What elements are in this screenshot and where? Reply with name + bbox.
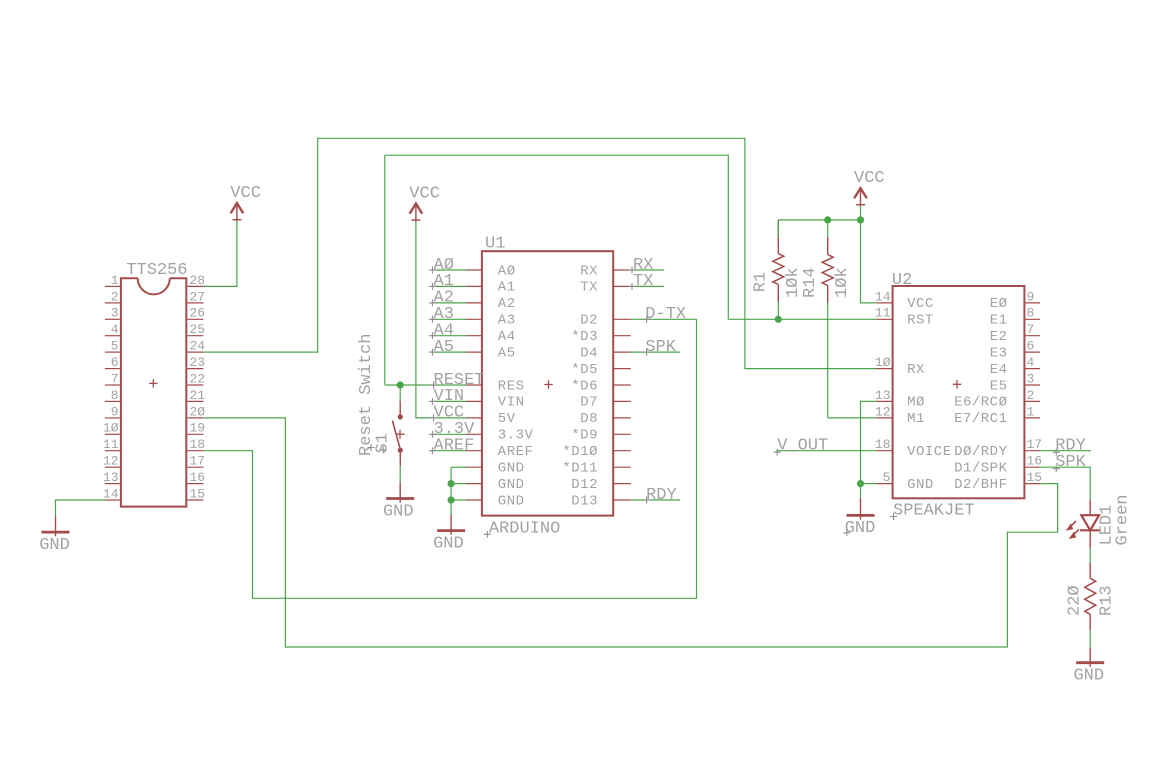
SPEAKJET pin 14 VCC (left) — [876, 302, 892, 304]
TTS256 pin 19 (right) — [187, 433, 203, 435]
svg-text:26: 26 — [190, 306, 206, 321]
svg-text:*D9: *D9 — [571, 428, 598, 444]
svg-text:*D3: *D3 — [571, 329, 598, 345]
resistor R14 — [827, 220, 829, 238]
svg-text:7: 7 — [111, 371, 119, 386]
switch S1 — [399, 385, 401, 401]
svg-text:D12: D12 — [571, 477, 598, 493]
svg-text:GND: GND — [39, 536, 70, 555]
svg-text:2: 2 — [1027, 388, 1035, 403]
svg-text:11: 11 — [103, 437, 119, 452]
net label 3.3V wire — [432, 433, 466, 435]
svg-text:2: 2 — [111, 289, 119, 304]
svg-text:D-TX: D-TX — [645, 305, 686, 324]
net label A1 wire — [432, 285, 466, 287]
svg-text:RX: RX — [580, 263, 598, 279]
TTS256 pin 12 (left) — [105, 466, 120, 468]
wire TTS pin18 to Arduino D2 (D-TX net) — [203, 319, 696, 598]
svg-text:6: 6 — [1027, 339, 1035, 354]
ARDUINO pin VIN (left, row 8) — [466, 400, 482, 402]
resistor R13 — [1089, 563, 1091, 578]
TTS256 pin 26 (right) — [187, 318, 203, 320]
svg-text:R13: R13 — [1098, 585, 1117, 616]
svg-text:1Ø: 1Ø — [103, 421, 119, 436]
SPEAKJET pin 12 M1 (left) — [876, 417, 892, 419]
SPEAKJET pin 8 E1 (right) — [1024, 318, 1040, 320]
svg-text:8: 8 — [111, 388, 119, 403]
svg-text:*D11: *D11 — [562, 461, 598, 477]
svg-text:7: 7 — [1027, 322, 1035, 337]
svg-text:23: 23 — [190, 355, 206, 370]
ARDUINO pin D4 (right, row 5) — [613, 351, 631, 353]
svg-text:AREF: AREF — [434, 437, 475, 456]
svg-text:TTS256: TTS256 — [126, 261, 187, 280]
ARDUINO pin D7 (right, row 8) — [613, 400, 631, 402]
net SPK wire (speakjet 16) to LED — [1040, 467, 1090, 499]
net TX wire — [631, 285, 664, 287]
ARDUINO pin RX (right, row 0) — [613, 269, 631, 271]
svg-text:1Øk: 1Øk — [833, 267, 852, 298]
SPEAKJET pin 18 VOICE (left) — [876, 450, 892, 452]
ARDUINO pin GND (left, row 12) — [466, 466, 482, 468]
TTS256 pin 21 (right) — [187, 400, 203, 402]
svg-text:TX: TX — [580, 280, 598, 296]
wire R13 to GND — [1089, 630, 1091, 647]
svg-text:3.3V: 3.3V — [498, 428, 534, 444]
ground symbol (R13) — [1073, 648, 1104, 686]
TTS256 pin 28 (right) — [187, 285, 203, 287]
TTS256 pin 24 (right) — [187, 351, 203, 353]
svg-text:M1: M1 — [907, 411, 925, 427]
svg-text:19: 19 — [190, 421, 206, 436]
svg-text:GND: GND — [498, 493, 525, 509]
net label A3 wire — [432, 318, 466, 320]
SPEAKJET pin 10 RX (left) — [876, 368, 892, 370]
svg-text:GND: GND — [498, 477, 525, 493]
VCC symbol (right) — [854, 169, 885, 207]
net RX wire — [631, 269, 664, 271]
svg-text:RESET: RESET — [434, 371, 485, 390]
SPEAKJET pin 13 M0 (left) — [876, 400, 892, 402]
SPEAKJET pin 16 D1/SPK (right) — [1024, 466, 1040, 468]
svg-text:VOICE: VOICE — [907, 444, 952, 460]
svg-text:VCC: VCC — [907, 296, 934, 312]
ground symbol (TTS256 pin14) — [39, 516, 70, 555]
svg-text:R14: R14 — [801, 267, 820, 298]
SPEAKJET pin 7 E2 (right) — [1024, 335, 1040, 337]
SPEAKJET pin 3 E5 (right) — [1024, 384, 1040, 386]
ARDUINO pin GND (left, row 13) — [466, 483, 482, 485]
ARDUINO pin GND (left, row 14) — [466, 499, 482, 501]
wire speakjet GND pin — [861, 483, 877, 485]
svg-text:GND: GND — [498, 461, 525, 477]
svg-text:D8: D8 — [580, 411, 598, 427]
ARDUINO pin *D3 (right, row 4) — [613, 335, 631, 337]
SPEAKJET pin 4 E4 (right) — [1024, 368, 1040, 370]
junction R14 top — [824, 216, 831, 223]
svg-text:13: 13 — [103, 470, 119, 485]
svg-text:RX: RX — [907, 362, 925, 378]
svg-text:RST: RST — [907, 313, 934, 329]
ARDUINO pin A0 (left, row 0) — [466, 269, 482, 271]
svg-text:GND: GND — [907, 477, 934, 493]
svg-text:U2: U2 — [892, 271, 912, 290]
svg-text:4: 4 — [111, 322, 119, 337]
junction VCC/pin14 — [857, 216, 864, 223]
svg-text:22: 22 — [190, 371, 206, 386]
IC U3 TTS256 body — [121, 278, 186, 506]
svg-text:GND: GND — [433, 534, 464, 553]
svg-text:14: 14 — [875, 289, 891, 304]
svg-text:E7/RC1: E7/RC1 — [954, 411, 1007, 427]
wire VCC to 5V pin — [416, 221, 466, 418]
svg-text:E1: E1 — [990, 313, 1008, 329]
IC U2 origin cross — [953, 380, 961, 388]
svg-text:GND: GND — [845, 519, 876, 538]
junction RESET/switch — [397, 381, 404, 388]
svg-text:3: 3 — [111, 306, 119, 321]
ARDUINO pin *D9 (right, row 10) — [613, 433, 631, 435]
svg-text:12: 12 — [875, 404, 891, 419]
ARDUINO pin 5V (left, row 9) — [466, 417, 482, 419]
wire RST row — [728, 318, 876, 320]
ARDUINO pin *D10 (right, row 11) — [613, 450, 631, 452]
ground symbol (arduino) — [433, 515, 465, 554]
svg-text:A3: A3 — [498, 313, 516, 329]
svg-text:A4: A4 — [498, 329, 516, 345]
svg-text:SPK: SPK — [1055, 453, 1086, 472]
TTS256 pin 9 (left) — [105, 417, 120, 419]
svg-text:SPK: SPK — [645, 338, 676, 357]
wire M1 row — [828, 417, 877, 419]
svg-text:5: 5 — [111, 339, 119, 354]
net D-TX wire (D2) — [631, 318, 697, 320]
svg-text:18: 18 — [875, 437, 891, 452]
TTS256 pin 23 (right) — [187, 368, 203, 370]
ground symbol (speakjet) — [845, 498, 876, 538]
svg-text:21: 21 — [190, 388, 206, 403]
net label VIN wire — [432, 400, 466, 402]
svg-text:1Ø: 1Ø — [875, 355, 891, 370]
svg-text:24: 24 — [190, 339, 206, 354]
junction R1/RST — [775, 316, 782, 323]
svg-text:E2: E2 — [990, 329, 1008, 345]
wire switch to GND — [399, 466, 401, 483]
TTS256 pin 2 (left) — [105, 302, 120, 304]
svg-text:D2/BHF: D2/BHF — [954, 477, 1007, 493]
svg-text:D4: D4 — [580, 345, 598, 361]
svg-text:D13: D13 — [571, 493, 598, 509]
net label V_OUT wire — [776, 450, 876, 452]
net SPK wire (D4) — [631, 351, 680, 353]
svg-text:RDY: RDY — [646, 486, 677, 505]
svg-text:16: 16 — [1027, 454, 1043, 469]
svg-text:U1: U1 — [485, 235, 505, 254]
svg-text:AREF: AREF — [498, 444, 534, 460]
TTS256 pin 14 (left) — [105, 499, 120, 501]
IC U1 origin cross — [544, 380, 552, 388]
svg-text:D2: D2 — [580, 313, 598, 329]
svg-text:Green: Green — [1114, 494, 1133, 545]
svg-text:RES: RES — [498, 378, 525, 394]
TTS256 pin 27 (right) — [187, 302, 203, 304]
ARDUINO pin A1 (left, row 1) — [466, 285, 482, 287]
SPEAKJET pin 5 GND (left) — [876, 483, 892, 485]
svg-text:DØ/RDY: DØ/RDY — [954, 444, 1008, 460]
IC U1 ARDUINO body — [482, 251, 613, 515]
ARDUINO pin TX (right, row 1) — [613, 285, 631, 287]
junction speakjet GND — [857, 480, 864, 487]
ARDUINO pin RES (left, row 7) — [466, 384, 482, 386]
junction GND3 — [448, 496, 455, 503]
svg-text:13: 13 — [875, 388, 891, 403]
wire TTS pin24 to SpeakJet RX (net) — [203, 138, 876, 368]
svg-text:V_OUT: V_OUT — [777, 437, 828, 456]
TTS256 pin 16 (right) — [187, 483, 203, 485]
svg-text:15: 15 — [1027, 470, 1043, 485]
svg-text:5V: 5V — [498, 411, 516, 427]
net label RESET wire — [385, 155, 729, 319]
TTS256 pin 3 (left) — [105, 318, 120, 320]
svg-text:SPEAKJET: SPEAKJET — [893, 502, 975, 521]
svg-text:EØ: EØ — [990, 296, 1008, 312]
svg-text:3: 3 — [1027, 371, 1035, 386]
LED LED1 — [1089, 500, 1091, 516]
ARDUINO pin 3.3V (left, row 10) — [466, 433, 482, 435]
TTS256 pin 4 (left) — [105, 335, 120, 337]
svg-text:*D1Ø: *D1Ø — [562, 444, 598, 460]
svg-text:D7: D7 — [580, 395, 598, 411]
wire M0 branch — [861, 401, 877, 483]
TTS256 pin 13 (left) — [105, 483, 120, 485]
svg-text:A5: A5 — [498, 345, 516, 361]
SPEAKJET pin 9 E0 (right) — [1024, 302, 1040, 304]
svg-text:9: 9 — [1027, 289, 1035, 304]
SPEAKJET pin 6 E3 (right) — [1024, 351, 1040, 353]
TTS256 pin 17 (right) — [187, 466, 203, 468]
ground symbol (switch) — [383, 483, 414, 522]
ARDUINO pin A4 (left, row 4) — [466, 335, 482, 337]
TTS256 pin 8 (left) — [105, 400, 120, 402]
svg-text:1: 1 — [1027, 404, 1035, 419]
net RDY wire (D13) — [631, 499, 680, 501]
IC U3 origin cross — [149, 379, 157, 387]
TTS256 pin 22 (right) — [187, 384, 203, 386]
svg-text:E4: E4 — [990, 362, 1008, 378]
svg-text:2Ø: 2Ø — [190, 404, 206, 419]
svg-text:E6/RCØ: E6/RCØ — [954, 395, 1007, 411]
SPEAKJET pin 1 E7/RC1 (right) — [1024, 417, 1040, 419]
svg-text:GND: GND — [383, 502, 414, 521]
svg-text:MØ: MØ — [907, 395, 925, 411]
svg-text:27: 27 — [190, 289, 206, 304]
TTS256 pin 10 (left) — [105, 433, 120, 435]
TTS256 pin 20 (right) — [187, 417, 203, 419]
svg-text:*D6: *D6 — [571, 378, 598, 394]
ARDUINO pin D13 (right, row 14) — [613, 499, 631, 501]
svg-text:A1: A1 — [498, 280, 516, 296]
svg-text:9: 9 — [111, 404, 119, 419]
SPEAKJET pin 11 RST (left) — [876, 318, 892, 320]
svg-text:VCC: VCC — [409, 184, 440, 203]
net label AREF wire — [432, 450, 466, 452]
junction GND2 — [448, 480, 455, 487]
net label A4 wire — [432, 335, 466, 337]
VCC symbol (arduino 5V) — [409, 184, 440, 222]
SPEAKJET pin 2 E6/RC0 (right) — [1024, 400, 1040, 402]
svg-text:5: 5 — [883, 470, 891, 485]
wire TTS pin14 to GND — [56, 500, 106, 516]
svg-text:E3: E3 — [990, 345, 1008, 361]
svg-text:4: 4 — [1027, 355, 1035, 370]
svg-text:*D5: *D5 — [571, 362, 598, 378]
ARDUINO pin A2 (left, row 2) — [466, 302, 482, 304]
svg-text:17: 17 — [1027, 437, 1043, 452]
resistor R1 — [777, 220, 779, 254]
svg-text:12: 12 — [103, 454, 119, 469]
net RDY wire (speakjet 17) — [1040, 450, 1091, 452]
svg-text:ARDUINO: ARDUINO — [489, 520, 560, 539]
TTS256 pin 1 (left) — [105, 285, 120, 287]
ARDUINO pin A5 (left, row 5) — [466, 351, 482, 353]
SPEAKJET pin 15 D2/BHF (right) — [1024, 483, 1040, 485]
svg-text:25: 25 — [190, 322, 206, 337]
wire TTS pin20 down-right (to SpeakJet pin15 net) — [203, 418, 1057, 647]
ARDUINO pin D2 (right, row 3) — [613, 318, 631, 320]
svg-text:18: 18 — [190, 437, 206, 452]
wire pin28 to VCC — [203, 221, 237, 286]
svg-text:A2: A2 — [498, 296, 516, 312]
ARDUINO pin A3 (left, row 3) — [466, 318, 482, 320]
net label A5 wire — [432, 351, 466, 353]
svg-text:VCC: VCC — [854, 169, 885, 188]
ARDUINO pin *D6 (right, row 7) — [613, 384, 631, 386]
svg-text:11: 11 — [875, 306, 891, 321]
svg-text:14: 14 — [103, 486, 119, 501]
TTS256 pin 7 (left) — [105, 384, 120, 386]
svg-text:16: 16 — [190, 470, 206, 485]
svg-text:17: 17 — [190, 454, 206, 469]
ARDUINO pin *D5 (right, row 6) — [613, 368, 631, 370]
svg-text:E5: E5 — [990, 378, 1008, 394]
TTS256 pin 11 (left) — [105, 450, 120, 452]
svg-text:22Ø: 22Ø — [1066, 585, 1085, 616]
TTS256 pin 5 (left) — [105, 351, 120, 353]
svg-text:6: 6 — [111, 355, 119, 370]
svg-text:VIN: VIN — [498, 395, 525, 411]
ARDUINO pin D12 (right, row 13) — [613, 483, 631, 485]
net label A0 wire — [432, 269, 466, 271]
SPEAKJET pin 17 D0/RDY (right) — [1024, 450, 1040, 452]
svg-text:28: 28 — [190, 273, 206, 288]
svg-text:R1: R1 — [752, 272, 771, 292]
svg-text:TX: TX — [633, 272, 653, 291]
wire arduino GND pins bus — [451, 466, 466, 468]
svg-text:AØ: AØ — [498, 263, 516, 279]
svg-text:1: 1 — [111, 273, 119, 288]
svg-text:VCC: VCC — [434, 404, 465, 423]
net label A2 wire — [432, 302, 466, 304]
TTS256 pin 6 (left) — [105, 368, 120, 370]
TTS256 pin 15 (right) — [187, 499, 203, 501]
svg-text:GND: GND — [1073, 667, 1104, 686]
wire VCC bus top — [860, 206, 862, 220]
ARDUINO pin AREF (left, row 11) — [466, 450, 482, 452]
ARDUINO pin D8 (right, row 9) — [613, 417, 631, 419]
svg-text:A5: A5 — [434, 338, 454, 357]
TTS256 pin 25 (right) — [187, 335, 203, 337]
wire LED to R13 — [1089, 549, 1091, 563]
svg-text:D1/SPK: D1/SPK — [954, 461, 1008, 477]
svg-text:15: 15 — [190, 486, 206, 501]
IC U2 SPEAKJET body — [893, 286, 1025, 498]
svg-text:VCC: VCC — [230, 184, 261, 203]
ARDUINO pin *D11 (right, row 12) — [613, 466, 631, 468]
svg-text:8: 8 — [1027, 306, 1035, 321]
TTS256 pin 18 (right) — [187, 450, 203, 452]
VCC symbol (TTS256 pin 28 net) — [230, 184, 261, 222]
